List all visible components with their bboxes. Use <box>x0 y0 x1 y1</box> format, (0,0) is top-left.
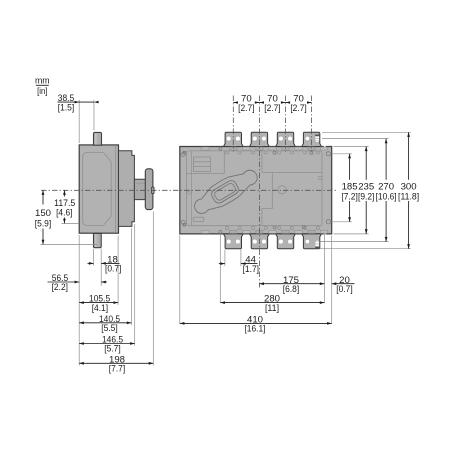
ext line body rear down <box>78 235 80 366</box>
ext line y=223.4 <box>62 222 80 224</box>
front view: screw <box>326 152 330 156</box>
side view: inner panel <box>83 152 112 225</box>
front view: top terminal tab 1 <box>224 132 244 146</box>
front view: terminal screw bottom <box>308 230 315 233</box>
svg-text:[16.1]: [16.1] <box>244 324 265 335</box>
svg-text:[0.7]: [0.7] <box>336 284 352 295</box>
ext 185 bot <box>331 221 352 223</box>
horizontal centerline <box>41 189 336 191</box>
ext line x=134.7 <box>134 224 136 346</box>
front view: tab 1 holes y=241.6 <box>226 239 231 244</box>
front view: tab 4 bottom clamp symbol <box>315 247 319 249</box>
front view: bottom edge bar <box>269 230 276 233</box>
svg-text:[in]: [in] <box>37 86 47 96</box>
dim 70 [2.7] #2 <box>259 102 264 104</box>
front view: left edge clip bottom <box>183 223 185 226</box>
front view: tab 2 holes y=138.6 <box>252 136 257 141</box>
front view: handle lever body <box>195 170 258 213</box>
svg-text:[2.7]: [2.7] <box>264 103 280 114</box>
front view: screw <box>273 151 276 154</box>
ext 270 bot <box>320 241 389 243</box>
front view: bottom terminal tab 1 <box>224 234 244 249</box>
dim 146.5 [5.7] <box>79 343 135 345</box>
dim 105.5 [4.1] <box>79 302 118 304</box>
dim 410 [16.1] <box>180 322 332 324</box>
front view: padlock circle <box>278 186 286 194</box>
front view: tab 4 top hole <box>305 136 310 141</box>
svg-text:150: 150 <box>35 208 51 219</box>
pole 4 centerline <box>311 96 313 152</box>
svg-text:[4.6]: [4.6] <box>56 208 72 219</box>
dim 235 [9.2] <box>365 147 367 180</box>
side view: handle stem step <box>137 182 147 184</box>
dim 185 [7.2] <box>349 154 351 180</box>
front view: left seam <box>191 151 193 225</box>
front view: under-tab circles <box>304 151 307 154</box>
dim 117.5 [4.6] <box>63 190 65 196</box>
front view: under-tab circles <box>252 151 255 154</box>
front view: mounting hole top-left <box>219 147 222 150</box>
svg-text:[5.9]: [5.9] <box>35 218 51 229</box>
front view: top edge bar <box>269 147 276 150</box>
dim 44 [1.7] <box>219 263 225 265</box>
side view: main case <box>79 145 118 233</box>
ext 300 bot <box>320 248 411 250</box>
side view: front cover <box>119 151 135 227</box>
dim 20 [0.7] <box>332 283 355 285</box>
front view: main body <box>180 147 332 234</box>
svg-text:[7.7]: [7.7] <box>109 364 125 375</box>
dim 175 [6.8] <box>259 283 324 285</box>
pole 3 centerline <box>285 96 287 152</box>
front view: tab 4 bottom hole <box>305 239 310 244</box>
ext line top terminal left edge <box>93 100 95 131</box>
svg-text:[6.8]: [6.8] <box>283 284 299 295</box>
ext 300 top <box>322 131 411 133</box>
front view: terminal screw bottom <box>230 230 237 233</box>
svg-text:[2.7]: [2.7] <box>238 103 254 114</box>
front view: top edge bar <box>243 147 250 150</box>
ext 280 left <box>219 234 221 303</box>
front view: terminal screw top <box>256 147 263 150</box>
front view: bottom edge bar <box>243 230 250 233</box>
svg-text:[1.5]: [1.5] <box>58 102 74 113</box>
front view: left edge keyhole <box>187 191 191 195</box>
svg-text:mm: mm <box>35 76 50 86</box>
front view: small circle right <box>318 176 321 179</box>
svg-text:[4.1]: [4.1] <box>92 303 108 314</box>
dim 56.5 [2.2] <box>48 281 80 283</box>
front view: bottom edge bar <box>295 230 302 233</box>
front view: cover plate outline <box>187 151 322 226</box>
ext 235 top <box>334 146 369 148</box>
ext x=324.4 <box>323 233 325 304</box>
front view: bottom edge bar <box>320 230 327 233</box>
front view: bottom terminal tab 3 <box>276 234 296 249</box>
front view: label plate <box>193 217 204 221</box>
svg-text:[5.5]: [5.5] <box>101 323 117 334</box>
svg-text:[2.7]: [2.7] <box>290 103 306 114</box>
svg-text:[5.7]: [5.7] <box>104 344 120 355</box>
front view: top terminal tab 3 <box>276 132 296 146</box>
ext line x=131.4 <box>130 228 132 325</box>
front view: top terminal tab 4 <box>302 132 322 146</box>
ext 44 left <box>224 250 226 267</box>
ext line terminal right <box>100 249 102 286</box>
front view: screw <box>310 151 313 154</box>
dim 270 [10.6] <box>385 139 387 180</box>
dim 70 [2.7] #3 <box>286 102 291 104</box>
svg-text:[11.8]: [11.8] <box>398 191 419 202</box>
ext line y=244.4 <box>41 243 98 245</box>
pole 2 centerline <box>258 96 260 288</box>
pole 1 centerline <box>232 96 234 152</box>
front view: mounting hole bottom-left <box>219 230 222 233</box>
dim 198 [7.7] <box>79 362 153 364</box>
svg-text:[7.2]: [7.2] <box>341 191 357 202</box>
dim 140.5 [5.5] <box>79 322 131 324</box>
ext 44 right <box>240 250 242 267</box>
front view: terminal screw top <box>282 147 289 150</box>
front view: under-tab circles <box>278 151 281 154</box>
front view: screw <box>181 152 185 156</box>
front view: terminal screw top <box>230 147 237 150</box>
ext 410 left <box>179 236 181 324</box>
dim 70 [2.7] #1 <box>233 102 238 104</box>
side view: handle grip middle nub <box>152 187 155 194</box>
front view: cover seams <box>262 151 322 226</box>
svg-text:[11]: [11] <box>265 303 279 314</box>
front view: terminal screw top <box>308 147 315 150</box>
ext line body rear up <box>78 100 80 143</box>
front view: handle grip outer <box>210 179 241 205</box>
front view: top terminal tab 2 <box>250 132 270 146</box>
ext line x=153.3 <box>152 212 154 366</box>
side view: top terminal <box>94 132 102 145</box>
front view: terminal screw bottom <box>282 230 289 233</box>
front view: screw <box>181 220 185 224</box>
svg-text:[0.7]: [0.7] <box>105 264 121 275</box>
front view: top edge bar <box>202 147 210 150</box>
front view: tab 1 holes y=138.6 <box>226 136 231 141</box>
dim 300 [11.8] <box>408 132 410 180</box>
front view: grille box <box>187 151 225 174</box>
front view: screw <box>302 226 305 229</box>
dim 150 [5.9] <box>42 190 44 204</box>
side view: bottom terminal <box>94 233 102 247</box>
front view: bottom edge bar <box>202 230 210 233</box>
front view: left edge clip top <box>183 151 185 154</box>
front view: top edge bar <box>320 147 327 150</box>
front view: tab 3 holes y=138.6 <box>279 136 284 141</box>
ext line x=118.1 <box>117 236 119 305</box>
ext 185 top <box>331 153 352 155</box>
front view: bottom terminal tab 2 <box>250 234 270 249</box>
ext 235 bot <box>334 233 369 235</box>
dim 18 [0.7] <box>88 262 94 264</box>
front view: terminal screw bottom <box>256 230 263 233</box>
ext line terminal left <box>93 249 95 266</box>
side view: case seam line <box>114 146 116 232</box>
front view: screw <box>273 226 276 229</box>
front view: bottom terminal tab 4 <box>302 234 322 249</box>
front view: top edge bar <box>295 147 302 150</box>
side view: handle grip <box>145 169 153 210</box>
ext 270 top <box>322 138 389 140</box>
front view: handle grip inner <box>213 182 236 201</box>
front view: tab 4 top clamp symbol <box>315 135 319 137</box>
dim 280 [11] <box>220 302 324 304</box>
dim 38.5 [1.5] <box>58 101 95 103</box>
svg-text:[2.2]: [2.2] <box>52 282 68 293</box>
side view: handle stem <box>134 179 146 199</box>
front view: under-tab circles <box>225 151 228 154</box>
svg-text:[9.2]: [9.2] <box>358 191 374 202</box>
ext x=331.7 (body right) <box>331 236 333 324</box>
front view: vent grille <box>193 157 210 172</box>
svg-text:[10.6]: [10.6] <box>376 191 397 202</box>
svg-text:[1.7]: [1.7] <box>243 264 259 275</box>
front view: screw <box>326 220 330 224</box>
front view: tab 3 holes y=241.6 <box>279 239 284 244</box>
front view: tab 2 holes y=241.6 <box>252 239 257 244</box>
